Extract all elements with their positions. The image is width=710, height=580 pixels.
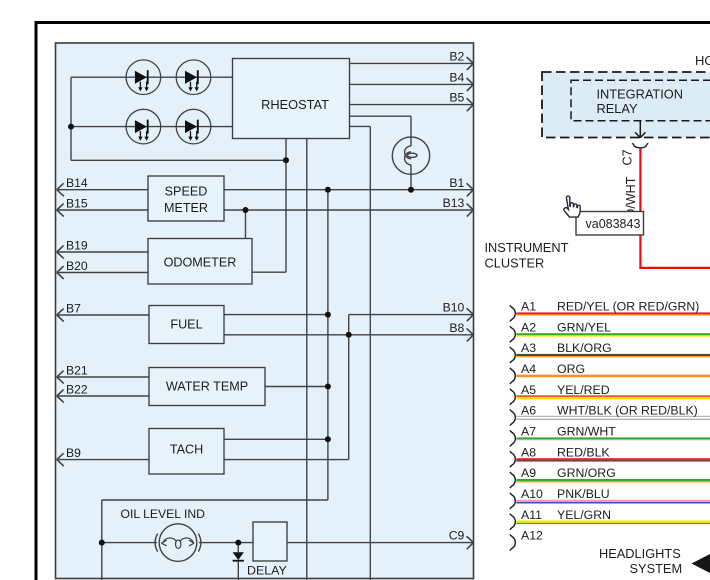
svg-text:INTEGRATION: INTEGRATION — [597, 86, 684, 101]
svg-text:WHT/BLK (OR RED/BLK): WHT/BLK (OR RED/BLK) — [557, 404, 698, 418]
svg-text:GRN/ORG: GRN/ORG — [557, 466, 616, 480]
svg-text:B19: B19 — [66, 238, 88, 252]
svg-text:B22: B22 — [66, 382, 88, 396]
svg-text:A10: A10 — [521, 487, 543, 501]
svg-text:B10: B10 — [443, 301, 465, 315]
svg-text:OIL LEVEL IND: OIL LEVEL IND — [121, 507, 206, 521]
svg-text:ODOMETER: ODOMETER — [164, 255, 237, 269]
svg-text:A5: A5 — [521, 383, 536, 397]
svg-text:DELAY: DELAY — [247, 564, 287, 578]
svg-text:SPEED: SPEED — [165, 185, 208, 199]
svg-text:RELAY: RELAY — [597, 101, 638, 116]
svg-text:A7: A7 — [521, 425, 536, 439]
svg-text:METER: METER — [164, 201, 208, 215]
svg-text:A3: A3 — [521, 341, 536, 355]
svg-text:YEL/RED: YEL/RED — [557, 383, 610, 397]
svg-text:WATER TEMP: WATER TEMP — [166, 380, 248, 394]
svg-text:RHEOSTAT: RHEOSTAT — [261, 97, 329, 112]
svg-text:GRN/WHT: GRN/WHT — [557, 425, 616, 439]
svg-text:A2: A2 — [521, 320, 536, 334]
svg-text:HO: HO — [695, 53, 710, 68]
svg-text:B4: B4 — [449, 71, 464, 85]
svg-text:B8: B8 — [449, 321, 464, 335]
svg-text:B9: B9 — [66, 446, 81, 460]
svg-text:B15: B15 — [66, 196, 88, 210]
svg-text:A11: A11 — [521, 508, 542, 522]
svg-text:FUEL: FUEL — [170, 318, 202, 332]
svg-text:B13: B13 — [443, 196, 465, 210]
svg-text:A9: A9 — [521, 466, 536, 480]
svg-text:HEADLIGHTS: HEADLIGHTS — [599, 546, 681, 561]
svg-text:C7: C7 — [621, 149, 635, 165]
svg-text:GRN/YEL: GRN/YEL — [557, 320, 611, 334]
svg-text:RED/BLK: RED/BLK — [557, 445, 610, 459]
svg-text:SYSTEM: SYSTEM — [630, 561, 683, 576]
svg-text:YEL/GRN: YEL/GRN — [557, 508, 611, 522]
svg-text:ORG: ORG — [557, 362, 585, 376]
svg-text:B5: B5 — [449, 91, 464, 105]
svg-text:A12: A12 — [521, 529, 543, 543]
svg-text:B14: B14 — [66, 176, 88, 190]
svg-text:PNK/BLU: PNK/BLU — [557, 487, 610, 501]
svg-text:B1: B1 — [449, 176, 464, 190]
svg-text:va083843: va083843 — [586, 217, 641, 231]
svg-text:A8: A8 — [521, 445, 536, 459]
svg-text:RED/YEL (OR RED/GRN): RED/YEL (OR RED/GRN) — [557, 300, 699, 314]
svg-text:BLK/ORG: BLK/ORG — [557, 341, 612, 355]
svg-text:INSTRUMENT: INSTRUMENT — [485, 240, 569, 255]
svg-text:C9: C9 — [449, 529, 465, 543]
svg-text:B2: B2 — [449, 50, 464, 64]
svg-text:TACH: TACH — [170, 442, 203, 456]
svg-text:CLUSTER: CLUSTER — [485, 256, 545, 271]
svg-text:A4: A4 — [521, 362, 536, 376]
svg-text:B20: B20 — [66, 259, 88, 273]
svg-text:B21: B21 — [66, 363, 88, 377]
svg-text:A1: A1 — [521, 300, 536, 314]
svg-text:B7: B7 — [66, 301, 81, 315]
svg-text:A6: A6 — [521, 404, 536, 418]
